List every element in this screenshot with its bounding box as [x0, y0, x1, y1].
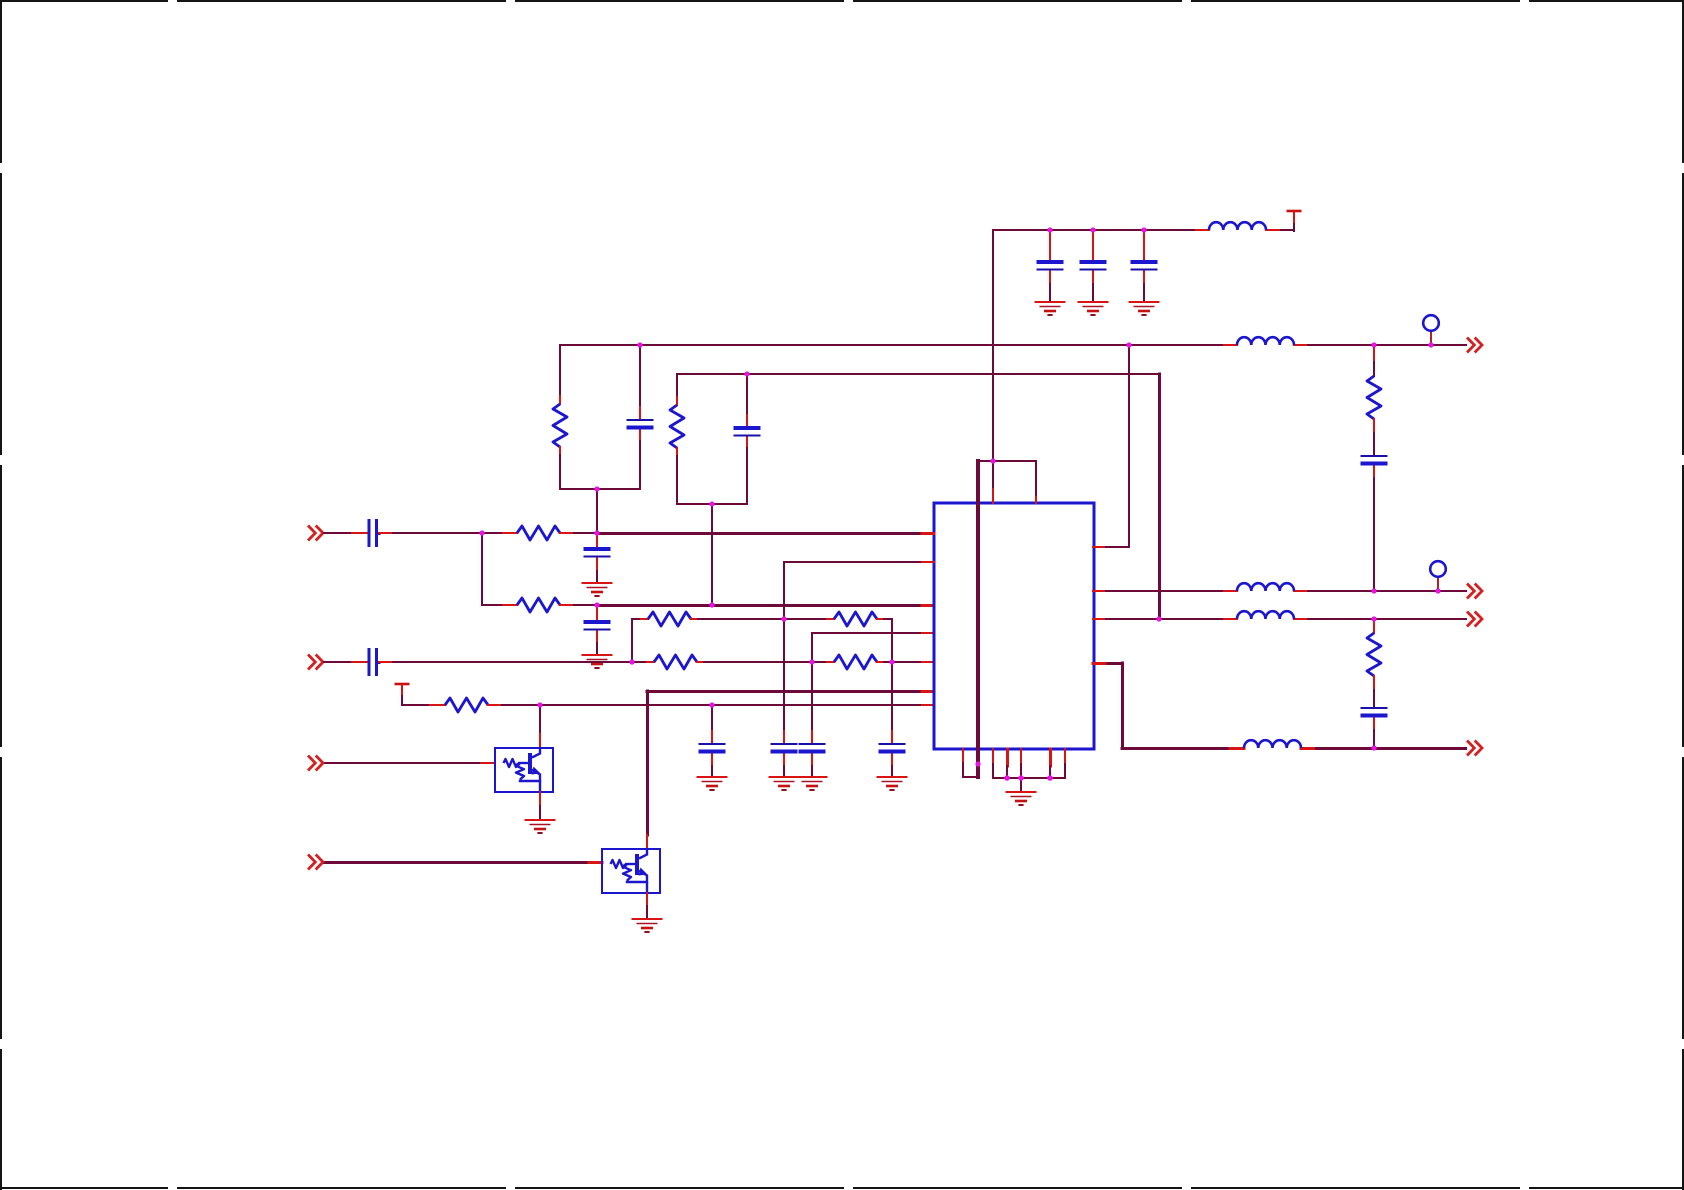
- wire: [1006, 749, 1010, 778]
- resistor R2: [517, 598, 560, 612]
- wire: [1093, 663, 1123, 748]
- wire: [1122, 747, 1467, 750]
- junction: [1371, 616, 1376, 621]
- junction: [1090, 227, 1095, 232]
- junction: [1004, 775, 1010, 781]
- resistor R10: [1367, 345, 1381, 433]
- wire: [1093, 590, 1467, 592]
- capacitor C12: [799, 662, 826, 776]
- wire: [323, 762, 495, 764]
- wire: [963, 749, 978, 777]
- wire: [1093, 618, 1467, 620]
- junction: [1371, 745, 1376, 750]
- wire: [1020, 778, 1022, 791]
- port P4 input chevron: [308, 855, 323, 870]
- wire: [488, 704, 934, 706]
- wire: [812, 633, 934, 662]
- junction: [1156, 616, 1161, 621]
- junction: [889, 659, 894, 664]
- wire: [632, 618, 648, 620]
- wire: [1064, 749, 1066, 778]
- IC U1: [934, 503, 1094, 749]
- junction: [781, 616, 786, 621]
- junction: [990, 458, 995, 463]
- wire: [784, 562, 934, 619]
- wire: [711, 504, 713, 605]
- inductor L2: [1237, 337, 1294, 345]
- wire: [1158, 374, 1161, 619]
- junction: [1141, 227, 1146, 232]
- ground: [525, 820, 556, 833]
- wire: [377, 661, 633, 665]
- resistor R9: [445, 698, 488, 712]
- capacitor C8: [1080, 230, 1107, 301]
- ground: [632, 919, 663, 932]
- junction: [709, 602, 714, 607]
- resistor R7: [654, 655, 697, 669]
- wire: [323, 661, 369, 663]
- wire: [632, 661, 654, 663]
- junction: [1371, 342, 1376, 347]
- capacitor C13: [879, 662, 906, 776]
- wire: [539, 792, 541, 819]
- wire: [323, 861, 602, 864]
- wire: [691, 618, 784, 620]
- capacitor C11: [771, 619, 798, 776]
- wire: [402, 696, 445, 705]
- wire: [1049, 749, 1053, 778]
- junction: [709, 702, 714, 707]
- transistor Q1: [495, 748, 553, 792]
- resistor R5: [648, 612, 691, 626]
- power tap VCC1: [1287, 211, 1302, 223]
- test point TP1: [1423, 315, 1439, 345]
- capacitor C1: [369, 519, 377, 547]
- port P7 output chevron: [1467, 612, 1482, 627]
- junction: [1018, 775, 1024, 781]
- wire: [539, 705, 541, 748]
- ground: [1129, 302, 1160, 315]
- junction: [637, 342, 642, 347]
- wire: [647, 690, 934, 693]
- wire: [560, 488, 640, 490]
- wire: [597, 604, 934, 607]
- port P6 output chevron: [1467, 584, 1482, 599]
- wire: [631, 619, 633, 662]
- capacitor C5: [584, 533, 611, 582]
- ground: [797, 777, 828, 790]
- junction: [1047, 227, 1052, 232]
- ground: [1006, 792, 1037, 805]
- capacitor C6: [584, 605, 611, 654]
- port P5 output chevron: [1467, 338, 1482, 353]
- ground: [1035, 302, 1066, 315]
- junction: [1126, 342, 1131, 347]
- wire: [922, 561, 934, 563]
- junction: [1047, 775, 1053, 781]
- wire: [560, 532, 598, 534]
- capacitor C14: [1361, 433, 1388, 591]
- resistor R1: [517, 526, 560, 540]
- junction: [537, 702, 542, 707]
- junction: [744, 371, 749, 376]
- wire: [877, 619, 892, 662]
- wire: [993, 223, 1294, 461]
- junction: [594, 530, 599, 535]
- wire: [646, 893, 648, 918]
- wire: [812, 661, 834, 663]
- capacitor C15: [1361, 690, 1388, 748]
- resistor R4: [670, 374, 684, 504]
- wire: [597, 532, 934, 535]
- wire: [560, 344, 1467, 346]
- power tap VCC2: [395, 684, 410, 696]
- ground: [697, 777, 728, 790]
- junction: [1428, 342, 1433, 347]
- junction: [594, 602, 599, 607]
- wire: [976, 461, 980, 777]
- junction: [809, 659, 814, 664]
- port P8 output chevron: [1467, 741, 1482, 756]
- ground: [1078, 302, 1109, 315]
- transistor Q2: [602, 849, 660, 893]
- wire: [560, 604, 598, 606]
- capacitor C9: [1131, 230, 1158, 301]
- junction: [594, 486, 599, 491]
- wire: [1093, 345, 1129, 547]
- capacitor C3: [627, 345, 654, 489]
- wire: [481, 533, 483, 605]
- capacitor C7: [1037, 230, 1064, 301]
- junction: [1435, 588, 1440, 593]
- wire: [922, 532, 934, 535]
- wire: [646, 691, 650, 849]
- capacitor C2: [369, 648, 377, 676]
- junction: [709, 501, 714, 506]
- IC U1 tab: [978, 461, 1036, 503]
- resistor R6: [834, 612, 877, 626]
- wire: [993, 749, 1065, 778]
- resistor R8: [834, 655, 877, 669]
- wire: [596, 489, 598, 533]
- capacitor C10: [699, 705, 726, 776]
- wire: [877, 661, 934, 663]
- junction: [479, 530, 484, 535]
- port P1 input chevron: [308, 526, 323, 541]
- junction: [975, 761, 980, 766]
- inductor L4: [1237, 611, 1294, 619]
- wire: [377, 532, 518, 536]
- wire: [323, 532, 369, 534]
- ground: [582, 583, 613, 596]
- inductor L1: [1209, 222, 1266, 230]
- inductor L5: [1244, 740, 1301, 748]
- resistor R11: [1367, 619, 1381, 690]
- capacitor C4: [734, 374, 761, 504]
- wire: [677, 373, 1159, 375]
- junction: [629, 659, 634, 664]
- port P3 input chevron: [308, 756, 323, 771]
- wire: [697, 661, 812, 663]
- junction: [1371, 588, 1376, 593]
- resistor R3: [553, 345, 567, 489]
- wire: [677, 503, 747, 505]
- ground: [769, 777, 800, 790]
- port P2 input chevron: [308, 655, 323, 670]
- wire: [784, 618, 834, 620]
- ground: [877, 777, 908, 790]
- ground: [582, 655, 613, 668]
- inductor L3: [1237, 583, 1294, 591]
- wire: [482, 604, 517, 606]
- test point TP2: [1430, 561, 1446, 591]
- wire: [1020, 749, 1022, 778]
